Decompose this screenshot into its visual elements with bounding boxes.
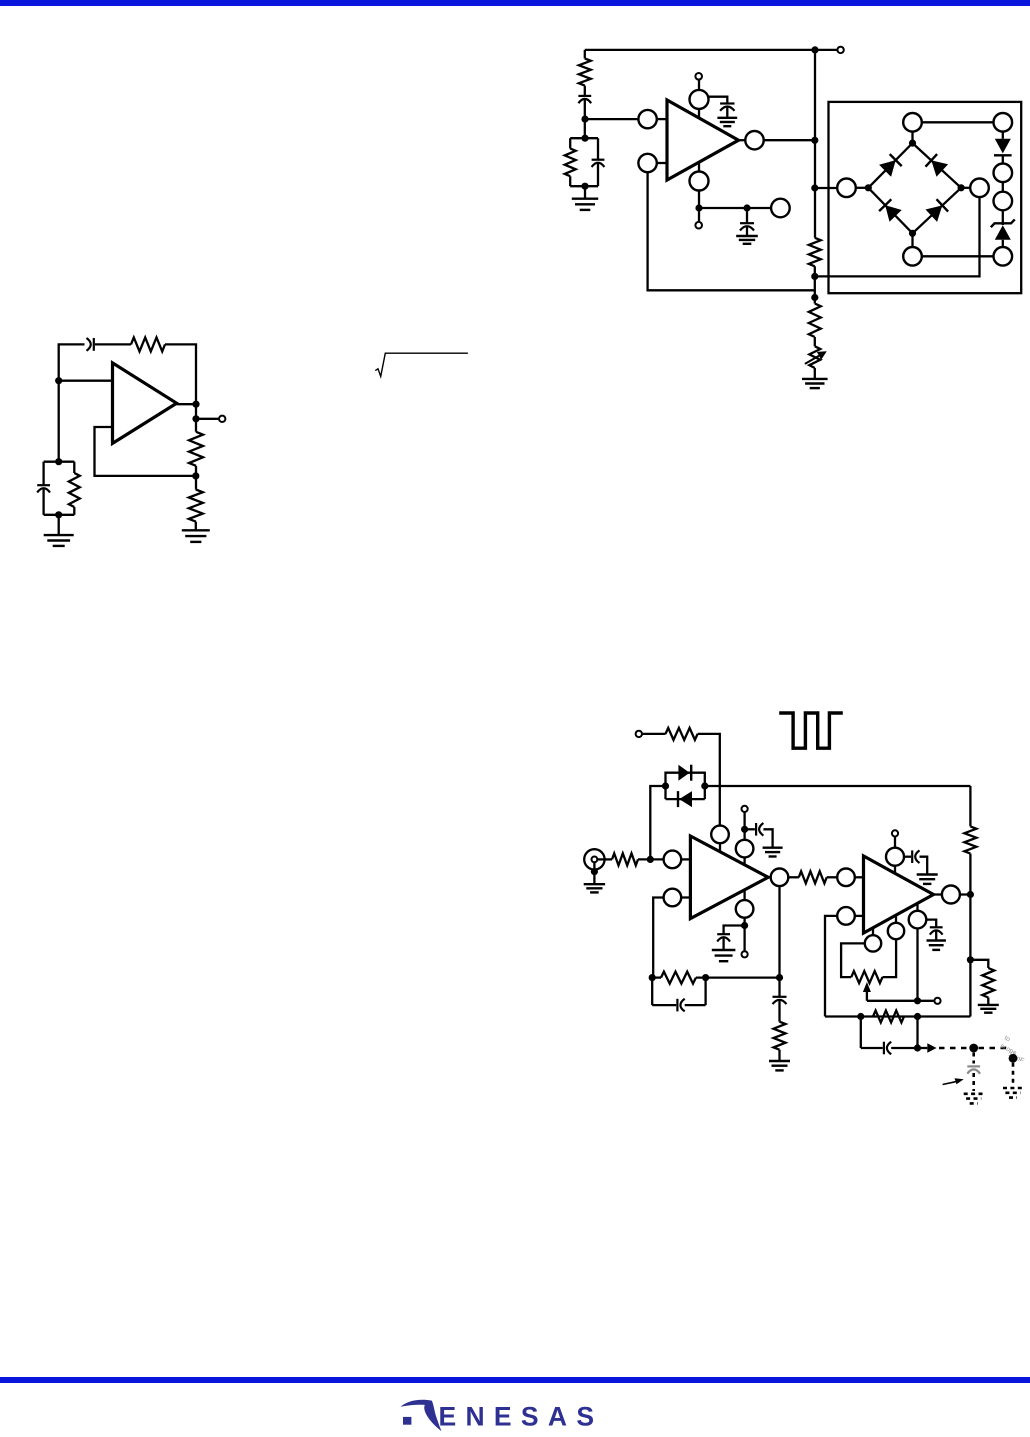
wire output down [778,886,780,978]
node bottom row right [914,1013,921,1020]
node clamp left [662,782,669,789]
wire clamp to feedback rail [705,785,971,787]
node output tap junction [192,415,199,422]
terminal V- A3 [742,951,748,957]
diode D1 (top-left) [879,154,902,177]
capacitor C6 (bypass V+) [720,104,734,111]
node V- junction [741,922,748,929]
resistor R11 [666,728,698,740]
wire probe arrow [918,1043,937,1053]
capacitor C12 (bypass V+) [904,850,920,863]
terminal R11 input [636,731,642,737]
Renesas logo [401,1400,595,1432]
ground (RC network) [44,535,74,546]
diode D8 (clamp) [678,791,692,807]
resistor R7 (shunt) [565,138,576,186]
zener D6 [991,219,1015,239]
svg-text:to: to [1003,1035,1011,1044]
wire R9 to R10 [814,337,816,346]
wire V- down [743,918,745,952]
node feedback mid [702,974,709,981]
wire right rail mid [969,854,971,1017]
parallel RC top wire [44,461,75,463]
ground (R15) [769,1061,790,1070]
resistor R13 (interstage) [799,871,827,883]
wire + input down [653,898,663,978]
pin - input A4 [837,869,863,887]
ground (scope, dashed) [1003,1088,1023,1098]
node rail junction 2 [811,273,818,280]
pin - input A3 [664,851,691,869]
node feedback right [776,974,783,981]
node probe junction [914,1044,921,1051]
node wiper junction [914,997,921,1004]
wire non-inverting input [59,380,113,382]
wire probe gnd dashed [1012,1063,1015,1086]
wire + input down [825,916,837,1017]
wire chain 5 [1002,240,1004,247]
wire pot left [841,943,865,977]
capacitor C14 [884,1042,891,1055]
node G junction [581,183,588,190]
wire R2 to output node [165,344,196,404]
resistor R17 (rail) [964,826,976,853]
pin chain top [994,113,1013,132]
diode pair top rail [666,773,705,799]
wire top vertex stem [911,132,913,144]
pin + input A1 [638,110,667,128]
resistor R8 (rail) [809,238,821,266]
ground (J1) [584,884,605,892]
wire bridge bottom [922,255,994,257]
wire output down [195,404,197,432]
wire to ground [58,515,60,535]
wire V- bus [699,207,771,209]
wire clamp to input node [650,786,665,859]
ground (RC shunt) [572,199,598,210]
wire to R18 [970,960,988,968]
resistor R3 (divider upper) [189,432,203,466]
node F junction [581,135,588,142]
wire A1 output [739,139,746,141]
capacitor C5 (shunt) [592,138,605,186]
wire C14 lead [861,1047,883,1049]
annotation arrow (probe) [943,1078,964,1084]
node probe tap [969,1044,978,1053]
wire probe cap dashed [972,1053,975,1064]
op-amp A3 [690,836,768,919]
wire terminal to R11 [642,733,666,735]
scope label marks [999,1035,1025,1065]
wire to output terminal [196,418,219,420]
wire feedback row a [652,976,661,978]
formula radical sign [375,353,468,376]
node V- junction [695,204,702,211]
potentiometer R16 [851,971,882,983]
terminal V+ A1 [695,73,702,80]
terminal VIN [837,47,843,53]
resistor R14 (feedback) [661,972,696,984]
pin bridge top [903,113,922,132]
wire R15 to ground [778,1050,780,1061]
wire R3 to node B [195,466,197,490]
wire R4 to ground [195,522,197,531]
node top vertex [909,140,916,147]
input connector J1 [584,849,604,869]
wire C10 riser left [651,978,653,1006]
diode D7 (clamp) [678,765,691,781]
diode D3 (bottom-left) [879,199,902,222]
wire V+ terminal [698,80,700,90]
node clamp right [701,782,708,789]
ground (R18) [978,1005,999,1013]
wire C6 to ground [726,107,728,118]
node feedback left [649,974,656,981]
node probe tap 2 [1009,1054,1018,1063]
wire R13 to A4 [827,876,838,878]
wire top rail [585,49,815,51]
wire C8 to ground [763,829,772,847]
ground (C12) [917,875,938,884]
diode D4 (bottom-right) [926,199,949,222]
ground (C13) [927,941,946,950]
wire to ground [584,186,586,199]
wire C7 to ground [746,227,748,237]
pin V- A3 [736,890,754,918]
diode pair bottom rail [666,798,705,800]
node rail junction [967,956,974,963]
wire - input feedback [648,172,815,290]
wire output to R13 [788,876,799,878]
resistor R12 [612,853,638,865]
pin output A4 [942,886,960,904]
wire R10 to ground [814,368,816,379]
ground (trimmer) [802,379,828,388]
resistor R6 [579,59,591,86]
wire node B to inverting input [95,427,196,476]
bridge module box [829,102,1022,293]
trimmer R10 [805,346,827,368]
capacitor C10 (feedback) [677,999,684,1012]
wire A4 output [934,893,942,895]
wire R6 to C4 [584,86,586,96]
wire C10 riser right [704,978,706,1006]
wire node E to + input [585,118,638,120]
node B junction [192,472,199,479]
wire diamond TL [868,143,912,188]
wire chain 2 [1002,155,1004,163]
node C junction [55,458,62,465]
ground (C7) [736,236,758,244]
wire R12 to - input [638,858,664,860]
pin chain mid2 [994,192,1013,211]
wire J1 stem [593,862,595,884]
wire bottom row [825,1015,970,1017]
resistor R4 (divider lower) [189,490,203,522]
wire diamond TR [913,143,962,188]
terminal V- A1 [695,222,702,229]
node J1 ground junction [591,868,598,875]
pin - input A1 [638,154,667,172]
wire top rail corner [584,50,586,59]
wire left pin to vertex [856,187,869,189]
wire C13 to ground [935,931,937,941]
wire A3 output [768,876,771,878]
wire C14 riser right [916,1017,918,1049]
pin V+ A3 [736,840,754,865]
ground (probe, dashed) [964,1094,984,1104]
diode D2 (top-right) [926,154,949,177]
parallel RC bottom wire [44,514,75,516]
wire right vertex to pin [961,187,970,189]
wire C10 lead [652,1004,676,1006]
wire R11 corner [698,734,720,826]
wire probe cap dashed 2 [972,1073,975,1091]
wire J1 to R12 [597,858,612,860]
terminal V+ A4 [892,830,898,836]
wire pot right [883,939,897,977]
wire wiper to V- node [867,1000,935,1002]
wire bottom vertex stem [911,233,913,247]
pin output A1 [745,131,763,149]
resistor R2 (feedback) [131,337,165,351]
resistor R19 (hysteresis) [873,1011,904,1023]
node bottom vertex [909,230,916,237]
terminal V+ A3 [742,806,748,812]
wire probe dashed 2 [979,1047,1008,1050]
wire C11 to R15 [778,1000,780,1022]
wire to input terminal [815,49,837,51]
wire C2 to R2 [95,343,131,345]
capacitor C3 (shunt) [37,462,50,515]
wire C14 to node [891,1047,917,1049]
op-amp A2 output wire [177,403,196,405]
pin comp A3 [711,826,729,852]
wire C4 to node E [584,99,586,138]
RC shunt top wire [570,137,598,139]
wire feedback top (node A to C2) [59,344,85,380]
node left vertex [865,184,872,191]
node D junction [55,511,62,518]
wire C10 to riser [685,1004,706,1006]
pin balance1 A4 [865,928,881,952]
node output junction [811,137,818,144]
wire output to rail [764,139,815,141]
node right vertex [958,184,965,191]
pin output A3 [771,869,789,887]
pin balance2 A4 [888,915,904,939]
pin bridge bottom [903,247,922,266]
pin V- A4 [909,903,927,928]
wire bridge right return [815,197,980,276]
wire rail mid [814,266,816,303]
pin V+ A1 [690,90,709,118]
wire node A down [58,381,60,462]
wire C9 to ground [722,938,724,951]
capacitor C13 (bypass V-) [926,920,942,935]
wire chain 3 [1002,182,1004,192]
pin V+ A4 [886,848,904,874]
op-amp A1 [667,100,739,180]
pin bridge left [837,179,856,198]
wire V+ terminal [894,837,896,848]
pin + input A4 [837,907,863,925]
pin chain mid1 [994,164,1013,183]
capacitor C7 (bypass V-) [740,208,754,231]
pot wiper arrow [863,982,871,1001]
wire probe dashed [939,1047,969,1050]
diode D5 [994,139,1012,156]
node V+ junction [741,826,748,833]
wire V- to wiper node [916,928,918,1000]
node top junction [811,46,818,53]
pin chain bottom [994,247,1013,266]
pin + input A3 [664,889,691,907]
wire right rail upper [969,786,971,826]
square-wave waveform symbol [779,713,843,748]
capacitor C8 (bypass V+) [745,823,764,836]
resistor R15 [774,1022,786,1050]
ground (C8) [763,848,783,857]
wire diamond BL [868,188,912,234]
ground (C6) [717,118,737,126]
wire chain 1 [1002,132,1004,139]
wire chain 4 [1002,210,1004,225]
pin offset A1 [771,199,790,218]
node A junction [55,377,62,384]
capacitor C11 (output filter) [773,978,787,1005]
ground (R4) [182,530,210,542]
wire C12 to ground [920,857,928,875]
wire R18 to ground [987,998,989,1005]
op-amp A4 [864,856,934,933]
op-amp A2 [113,363,177,444]
terminal V- A4 [934,998,940,1004]
capacitor C4 [578,96,591,103]
pin V- A1 [690,162,709,190]
pin bridge right [970,179,989,198]
wire diamond BR [913,188,962,234]
terminal VOUT [219,416,225,422]
wire main rail upper [814,50,816,238]
node rail-bridge junction [811,184,818,191]
wire V+ bypass [709,97,728,104]
capacitor C9 (bypass V-) [717,926,744,942]
node bottom row left [857,1013,864,1020]
node E junction [581,116,588,123]
wire V- down [698,191,700,223]
RC shunt bottom wire [570,185,598,187]
node bypass junction [743,204,750,211]
capacitor C15 (probe, ghost) [967,1066,980,1073]
wire C14 riser left [860,1017,862,1049]
wire output to rail [960,893,971,895]
node input junction [647,856,654,863]
svg-text:ENESAS: ENESAS [439,1402,595,1432]
resistor R5 (shunt) [69,462,80,515]
wire bridge top [922,121,994,123]
node output junction [192,401,199,408]
wire rail to left pin [815,187,837,189]
resistor R18 [982,968,994,998]
wire feedback row b [696,976,780,978]
resistor R9 (rail) [809,304,821,338]
node rail junction 3 [811,294,818,301]
capacitor C2 (feedback) [87,338,94,351]
ground (C9) [712,950,736,961]
wire V+ up [743,812,745,840]
node output rail junction [967,891,974,898]
